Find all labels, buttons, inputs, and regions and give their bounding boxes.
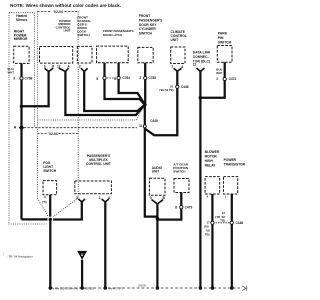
connector C448b1 ring	[211, 221, 214, 224]
connector C448 ring	[176, 85, 179, 88]
svg-text:CYLINDER: CYLINDER	[139, 27, 156, 31]
svg-text:3: 3	[99, 196, 101, 200]
wire horizontal mirror to option circle	[22, 218, 51, 220]
power mirror control unit box	[40, 47, 73, 64]
svg-text:UNIT: UNIT	[171, 38, 179, 42]
svg-text:6: 6	[44, 195, 46, 199]
svg-text:MOTOR: MOTOR	[205, 154, 218, 158]
svg-text:TB): TB)	[220, 219, 225, 223]
circle junction	[47, 217, 53, 223]
svg-text:FRONT: FRONT	[139, 14, 150, 18]
wire PMCU right to main junction	[65, 71, 144, 115]
svg-text:Mirrors: Mirrors	[16, 18, 28, 22]
wire multiplex left to circle junction	[50, 202, 82, 220]
wire door lock switch pins merge	[81, 68, 88, 71]
02-04 option box (fog light switch) header	[38, 133, 79, 135]
wire park pin switch to DLC junction	[200, 62, 224, 97]
svg-text:DOOR KEY: DOOR KEY	[139, 23, 157, 27]
svg-text:UNIT: UNIT	[64, 29, 71, 33]
connector C448 bottom	[216, 222, 230, 224]
svg-text:2: 2	[216, 77, 218, 81]
long dashed line y127	[24, 127, 137, 129]
wire multiplex right down to terminal	[104, 202, 106, 289]
wire DLC pins merge	[197, 68, 205, 72]
A/T gear position switch box	[174, 179, 189, 193]
wire PMCU pins 9/8 merge	[45, 68, 54, 71]
svg-text:4: 4	[206, 195, 208, 199]
svg-text:455 555: 455 555	[85, 286, 95, 290]
svg-text:C789: C789	[25, 77, 33, 81]
wire audio down to terminal	[156, 204, 158, 289]
svg-text:BLOWER: BLOWER	[205, 150, 220, 154]
junction dot audio	[156, 217, 160, 221]
svg-text:: '99-'04 Navigation: : '99-'04 Navigation	[7, 254, 34, 258]
svg-text:RELAY: RELAY	[205, 164, 217, 168]
front passenger's door lock switch box	[77, 46, 92, 63]
wire blower relay down to terminal	[211, 194, 213, 288]
svg-text:TRANSISTOR: TRANSISTOR	[224, 162, 246, 166]
front passenger's door latch box	[97, 46, 129, 63]
connector C785 ring	[144, 76, 147, 79]
main junction dot	[143, 103, 147, 107]
svg-text:2: 2	[79, 65, 81, 69]
svg-text:PIN: PIN	[218, 36, 224, 40]
svg-text:16: 16	[170, 84, 173, 88]
wire PMCU left to mirror junction	[22, 71, 49, 106]
connector C445 ring	[143, 125, 146, 128]
svg-text:12: 12	[193, 63, 197, 67]
svg-text:SWITCH: SWITCH	[77, 33, 90, 37]
svg-text:C479: C479	[185, 206, 193, 210]
svg-text:H: H	[14, 125, 17, 129]
bottom arrow	[242, 286, 246, 291]
svg-text:PARK: PARK	[218, 32, 228, 36]
svg-text:POWER: POWER	[224, 158, 237, 162]
wire climate control pins merge	[174, 68, 182, 71]
wire A/T gear to audio junction	[157, 193, 181, 220]
svg-text:8: 8	[175, 206, 177, 210]
svg-text:NOTE: Wires shown without colo: NOTE: Wires shown without color codes ar…	[10, 3, 121, 8]
svg-text:C472: C472	[229, 77, 237, 81]
svg-text:PASSENGER'S: PASSENGER'S	[139, 18, 163, 22]
power transistor box	[224, 177, 238, 194]
svg-text:a-see 555-170 (ex'04): a-see 555-170 (ex'04)	[53, 286, 78, 290]
svg-text:2: 2	[76, 196, 78, 200]
wire main junction down to audio junction	[145, 105, 158, 217]
svg-text:MIRROR: MIRROR	[14, 37, 28, 41]
svg-text:C445: C445	[150, 119, 158, 123]
svg-text:TB): TB)	[205, 233, 210, 237]
connector C784b ring	[117, 76, 120, 79]
wire key cylinder switch to main junction	[144, 63, 146, 105]
heated mirrors option box	[9, 13, 35, 224]
svg-text:UNIT: UNIT	[152, 170, 159, 174]
svg-text:see ATT 170: see ATT 170	[108, 286, 123, 290]
svg-text:BLK/: BLK/	[216, 67, 223, 71]
connector C472 ring	[223, 77, 226, 80]
svg-text:C784: C784	[122, 76, 130, 80]
right power mirror box	[14, 46, 29, 63]
svg-text:'02-04: '02-04	[48, 132, 57, 136]
svg-text:C448: C448	[181, 85, 189, 89]
svg-text:2: 2	[139, 76, 141, 80]
junction dot mirror	[20, 105, 24, 109]
svg-text:*: *	[3, 253, 5, 257]
svg-text:A: A	[181, 65, 184, 69]
wire multiplex right pin merge	[102, 199, 109, 202]
svg-text:(G503): (G503)	[138, 283, 146, 287]
svg-text:5: 5	[96, 77, 98, 81]
svg-text:7: 7	[171, 65, 173, 69]
wire power transistor down to terminal	[231, 194, 233, 288]
svg-text:1: 1	[224, 195, 226, 199]
bottom terminal dashed line	[50, 287, 241, 289]
svg-text:C785: C785	[148, 76, 156, 80]
svg-text:11: 11	[139, 124, 143, 128]
wire right power mirror	[20, 63, 22, 219]
svg-text:3: 3	[13, 77, 15, 81]
climate control unit box	[171, 47, 185, 64]
svg-text:6: 6	[114, 77, 116, 81]
svg-text:WHT: WHT	[216, 71, 222, 75]
svg-text:SWITCH: SWITCH	[173, 170, 186, 174]
junction dot DLC	[199, 96, 203, 100]
dotted option line y224	[9, 223, 47, 225]
wire audio pins merge	[152, 200, 164, 205]
connector C784a ring	[103, 76, 106, 79]
svg-text:C448: C448	[236, 221, 244, 225]
wire PMCU pins 12/A merge	[59, 68, 69, 71]
svg-text:HIGH: HIGH	[205, 159, 214, 163]
terminal dots	[49, 286, 53, 290]
svg-text:5: 5	[150, 196, 152, 200]
svg-text:DOOR LATCH: DOOR LATCH	[103, 33, 122, 37]
wire door lock switch to main junction	[84, 71, 144, 111]
connector C789 ring	[20, 77, 23, 80]
svg-text:SWITCH: SWITCH	[139, 32, 153, 36]
svg-text:SWITCH: SWITCH	[218, 41, 232, 45]
svg-text:SWITCH: SWITCH	[43, 169, 57, 173]
fog light switch box	[43, 181, 57, 195]
dotted option line y120 to main junction	[38, 107, 144, 120]
passenger's multiplex control unit box	[75, 181, 112, 194]
wire climate control down and to main wire	[145, 71, 177, 135]
svg-text:(*5): (*5)	[42, 200, 47, 204]
audio unit box	[149, 178, 165, 195]
svg-text:CONTROL UNIT: CONTROL UNIT	[86, 162, 111, 166]
wire triangle down to terminal	[81, 260, 83, 288]
blower motor high relay box	[205, 177, 220, 194]
front passenger's door key cylinder switch box	[138, 47, 153, 62]
wire circle junction down to terminal	[49, 219, 51, 288]
wire fog light switch down	[49, 195, 51, 220]
02-04 option box (power mirror control unit)	[38, 12, 79, 199]
wire DLC down to terminal	[199, 71, 201, 288]
wire multiplex left pin merge	[79, 199, 86, 202]
svg-text:('96-'02 TB): ('96-'02 TB)	[159, 88, 173, 92]
svg-text:DATA LINK: DATA LINK	[193, 51, 211, 55]
park pin switch box	[217, 46, 232, 63]
wire door latch pin 5 to main junction	[105, 63, 145, 105]
connector C448b2 ring	[230, 221, 233, 224]
svg-text:'02-04: '02-04	[53, 10, 63, 14]
option funnel diagonals to circle junction	[38, 198, 79, 217]
connector C479 ring	[180, 206, 183, 209]
triangle continuation marker	[77, 251, 87, 260]
svg-text:12: 12	[57, 65, 61, 69]
svg-text:WHT: WHT	[8, 71, 15, 75]
wire door latch pin 6 to main junction	[119, 63, 145, 104]
svg-text:CONNEC-: CONNEC-	[193, 55, 209, 59]
